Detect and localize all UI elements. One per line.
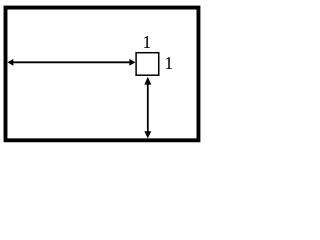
down arrowhead [144, 131, 151, 138]
svg-text:1: 1 [142, 32, 151, 52]
right arrowhead [129, 59, 135, 66]
left arrowhead [7, 59, 13, 66]
outer frame [6, 8, 199, 141]
svg-text:1: 1 [164, 53, 173, 73]
up arrowhead [144, 77, 151, 85]
wire: horizontal measurement line [12, 61, 131, 63]
square box (node 1) [136, 53, 159, 75]
wire: vertical measurement line [147, 82, 149, 133]
